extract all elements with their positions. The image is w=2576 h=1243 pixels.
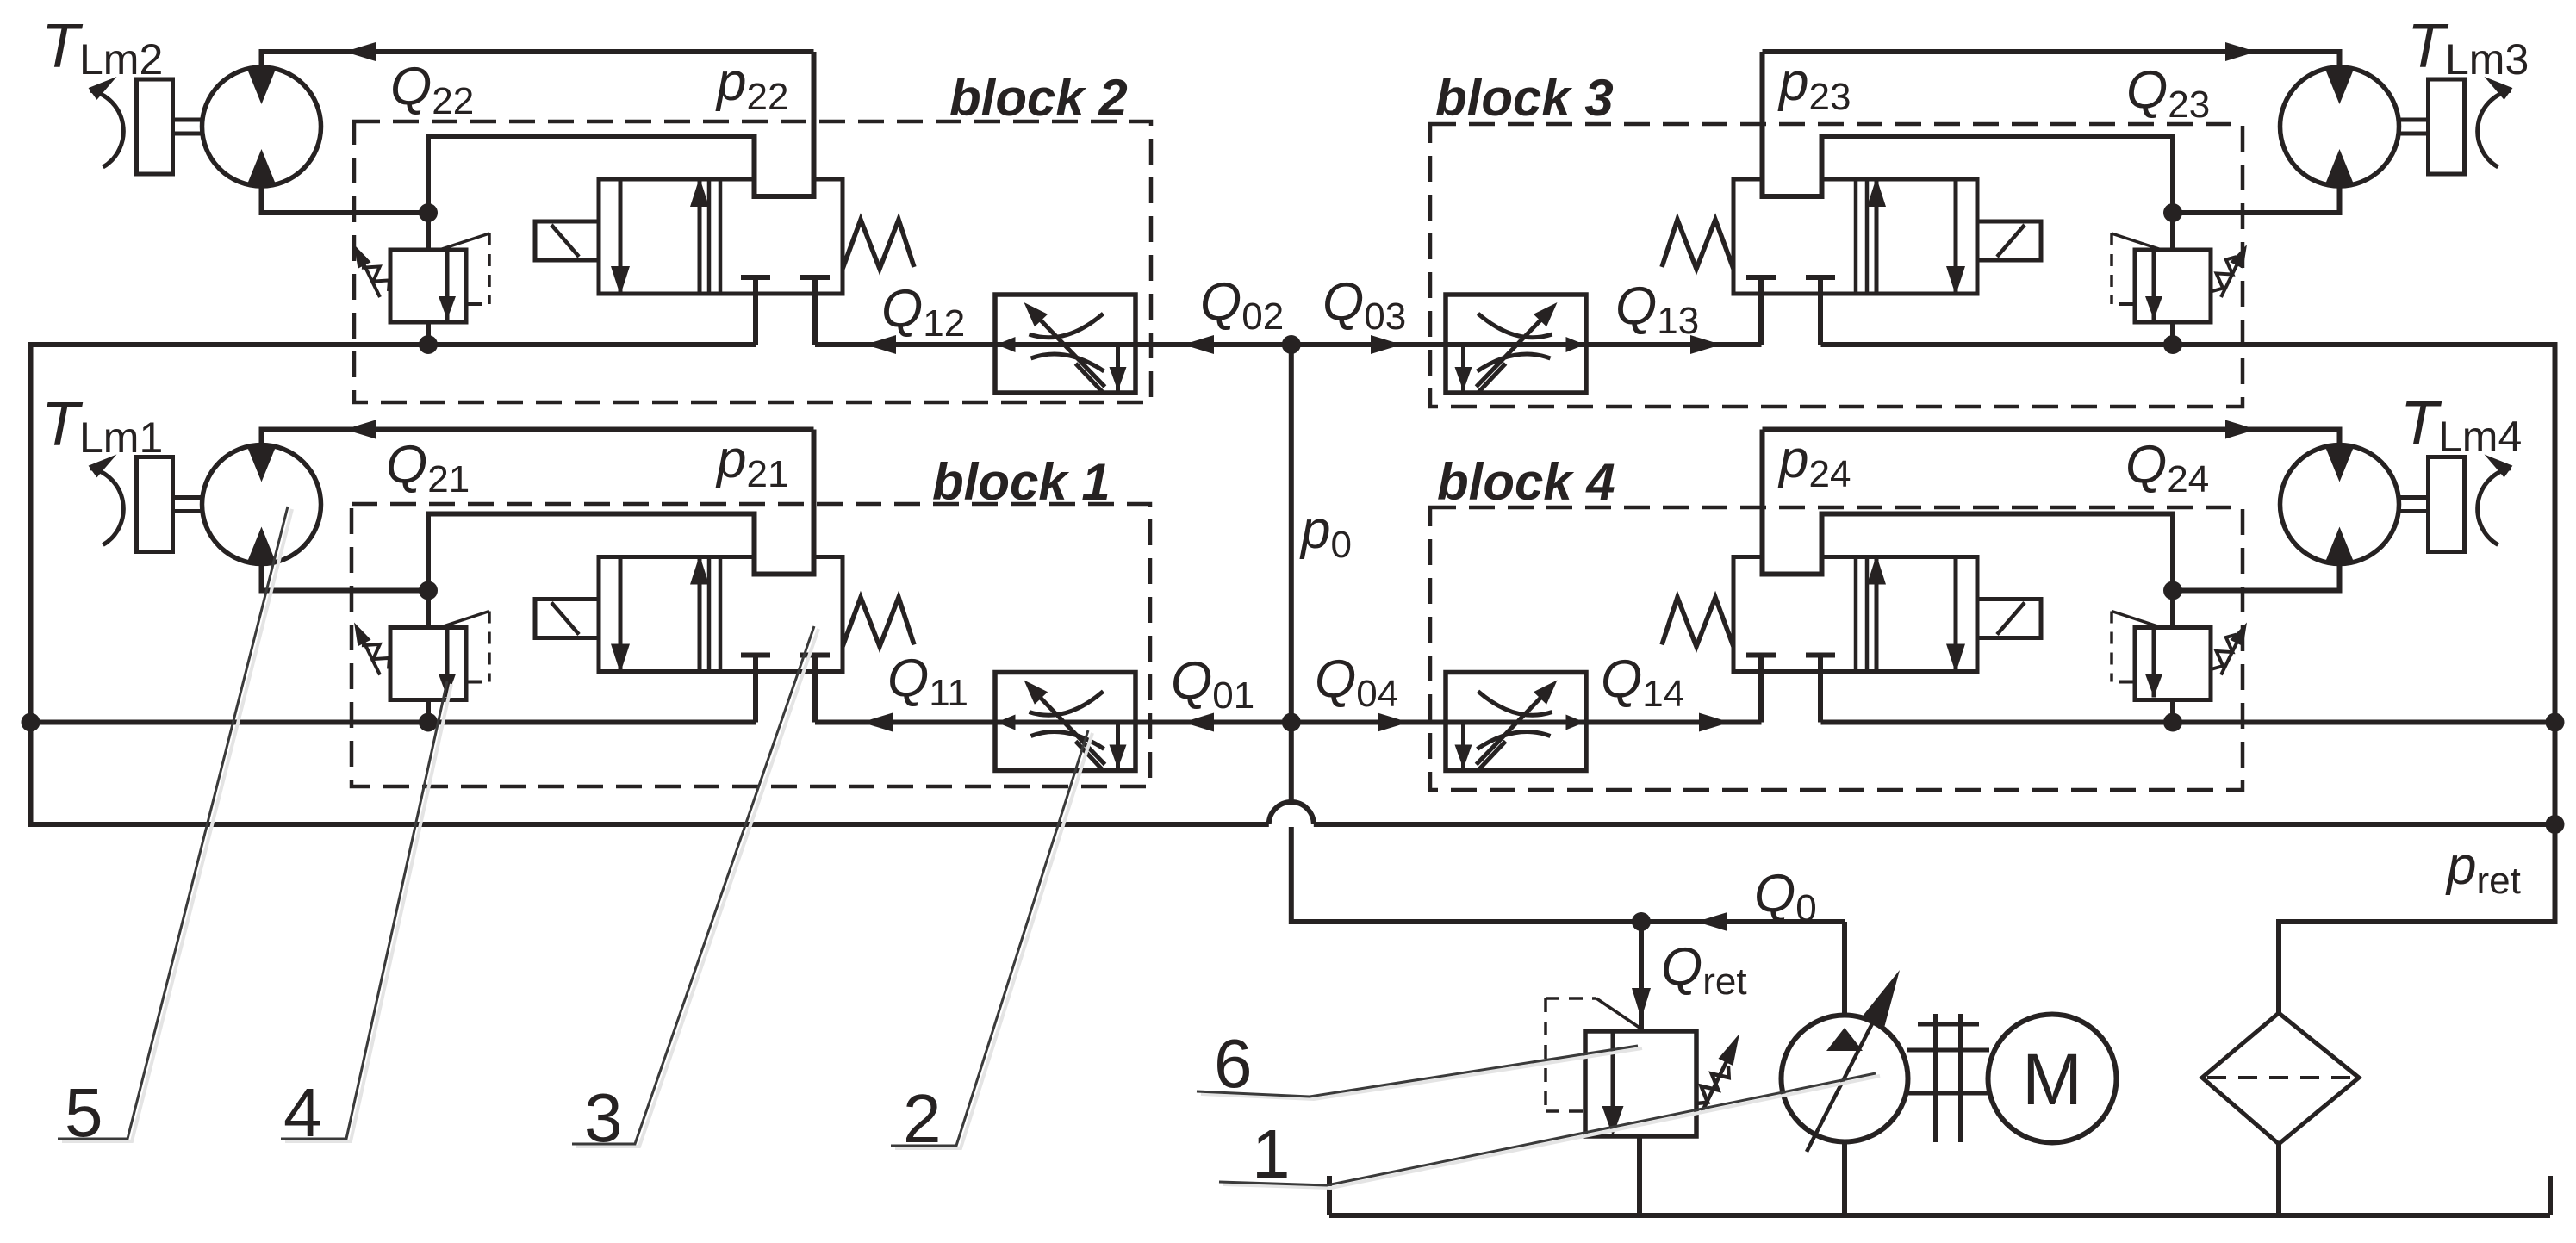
hydraulic motor Lm3 (2280, 67, 2399, 186)
arrow Q0 (1696, 912, 1727, 931)
valve top port pocket (1765, 554, 1820, 576)
wire: junction up and over to valve top notch (1763, 136, 2174, 213)
directional valve body (2/2 proportional) (599, 179, 843, 294)
arrow Q04 (1378, 713, 1409, 732)
valve flow path with up arrow (1875, 557, 1879, 672)
hydraulic motor Lm1 (202, 445, 321, 564)
valve bottom port T (to return) (741, 275, 770, 280)
relief valve flow line with down arrow (1611, 1031, 1615, 1130)
hydraulic motor Lm2 (202, 67, 321, 186)
wire: motor TLm3 top port to p-line (1763, 52, 2340, 70)
throttle arcs (1478, 692, 1552, 716)
dashed boundary of block 4 (1430, 507, 2243, 790)
arrow Q01 (1183, 713, 1214, 732)
node: right rail / pret rail (2546, 815, 2565, 834)
compensator flow line with down arrow (445, 250, 450, 320)
valve flow path with down arrow (619, 179, 623, 294)
compensator adjustable spring (364, 257, 389, 291)
svg-text:block 4: block 4 (1437, 453, 1615, 511)
arrowhead on motor top wire (345, 420, 376, 439)
arrow Q02 (1183, 335, 1214, 354)
wire: junction up and over to valve top notch (428, 514, 814, 591)
solenoid actuator (1977, 600, 2041, 638)
wire: motor TLm4 bottom port to junction (2173, 562, 2340, 591)
node: left rail / middle rail (22, 713, 40, 732)
relief valve tank line (1637, 1136, 1642, 1215)
flow control valve body (995, 673, 1136, 771)
valve flow path with down arrow (1954, 557, 1958, 672)
flow direction arrow (997, 337, 1016, 352)
solenoid actuator (535, 221, 599, 260)
junction node (419, 203, 438, 222)
dashed boundary of block 1 (352, 504, 1150, 786)
dashed boundary of block 3 (1430, 124, 2243, 407)
junction node on rail (419, 713, 438, 732)
motor shaft coupling lines (173, 495, 202, 500)
rotation arrow at Lm4 (2478, 469, 2511, 545)
compensator pilot line (dashed) (439, 233, 489, 250)
electric motor M (1988, 1015, 2117, 1143)
valve flow path with up arrow (698, 179, 702, 294)
wire: p-line down into valve top port (812, 52, 817, 196)
compensator adjustable spring (2212, 635, 2237, 669)
junction node (2163, 203, 2182, 222)
motor shaft block (137, 457, 173, 552)
throttle arcs (1030, 692, 1104, 716)
filter to p_ret rail wire (2279, 922, 2558, 1013)
valve return spring (1662, 220, 1733, 269)
directional valve position divider (719, 557, 723, 672)
relief valve pilot line (dashed) (1544, 998, 1547, 1111)
middle supply rail (Q11/Q01/Q04/Q14) (31, 720, 756, 725)
flow line through valve (1442, 720, 1590, 725)
arrow Q13 (1690, 335, 1721, 354)
compensator adjustable spring (2212, 257, 2237, 291)
directional valve position divider (1854, 557, 1858, 672)
compensator pilot line (dashed) (439, 612, 489, 628)
motor shaft coupling lines (2399, 118, 2429, 122)
top supply rail (Q12/Q02/Q03/Q13) (28, 342, 756, 347)
svg-text:block 1: block 1 (932, 453, 1111, 511)
svg-text:1: 1 (1252, 1116, 1291, 1192)
flow control valve body (1446, 295, 1586, 393)
flow control valve body (1446, 673, 1586, 771)
arrow Q14 (1699, 713, 1730, 732)
compensated branch with down arrow (1116, 345, 1120, 392)
compensator pilot line (dashed) (2112, 612, 2162, 628)
arrowhead on motor top wire (2225, 420, 2256, 439)
svg-text:6: 6 (1214, 1025, 1253, 1102)
return filter (2202, 1013, 2359, 1144)
valve flow path with up arrow (698, 557, 702, 672)
relief valve body (item 1/6) (1585, 1031, 1696, 1136)
p0 supply line (1289, 345, 1294, 802)
junction node (2163, 581, 2182, 600)
relief valve adjustment arrow (1702, 1054, 1730, 1111)
rotation arrow at Lm2 (90, 90, 124, 167)
valve return spring (843, 220, 914, 269)
directional valve body (2/2 proportional) (599, 557, 843, 672)
valve bottom port T (to flow control) (800, 275, 830, 280)
variable displacement pump (1782, 1016, 1908, 1142)
pressure compensator valve body (390, 628, 466, 700)
motor shaft coupling lines (2399, 495, 2429, 500)
compensator flow line with down arrow (2152, 250, 2156, 320)
rotation arrow at Lm1 (90, 469, 124, 545)
dashed boundary of block 2 (354, 121, 1151, 402)
arrow Q11 (862, 713, 893, 732)
arrow Q12 (865, 335, 896, 354)
throttle arcs (1478, 314, 1552, 338)
adjustment arrow (1477, 690, 1549, 765)
directional valve body (2/2 proportional) (1733, 557, 1977, 672)
wire: p-line down into valve top port (812, 430, 817, 575)
solenoid actuator (1977, 221, 2041, 260)
wire: motor TLm1 bottom port to junction (262, 562, 429, 591)
valve return spring (1662, 598, 1733, 647)
wire: junction down through compensator valve to rail (2170, 213, 2175, 345)
svg-text:block 3: block 3 (1435, 69, 1614, 127)
compensated branch with down arrow (1461, 345, 1465, 392)
arrow Q03 (1371, 335, 1402, 354)
adjustment arrow (1477, 312, 1549, 387)
valve top port pocket (757, 176, 812, 198)
valve flow path with down arrow (619, 557, 623, 672)
flow direction arrow (1566, 715, 1585, 730)
pressure compensator valve body (2135, 628, 2211, 700)
valve bottom port T (to flow control) (1746, 275, 1776, 280)
junction node (419, 581, 438, 600)
valve return spring (843, 598, 914, 647)
valve bottom port T (to return) (741, 653, 770, 658)
solenoid actuator (535, 600, 599, 638)
node: p0 / middle rail (1282, 713, 1301, 732)
compensated branch with down arrow (1116, 723, 1120, 770)
directional valve position divider (719, 179, 723, 294)
compensated branch with down arrow (1461, 723, 1465, 770)
wire: junction up and over to valve top notch (1763, 514, 2174, 591)
valve bottom port T (to return) (1806, 275, 1835, 280)
wire: p-line down into valve top port (1760, 430, 1765, 575)
valve bottom port T (to return) (1806, 653, 1835, 658)
pump suction/pressure line (1842, 922, 1847, 1016)
arrowhead on motor top wire (345, 42, 376, 61)
motor shaft block (2429, 457, 2465, 552)
flow line through valve (1442, 342, 1590, 347)
Qret wire down to relief valve (1639, 922, 1644, 1031)
junction node on rail (2163, 335, 2182, 354)
p_ret return rail with bridge over p0 (28, 822, 1269, 827)
node: right rail / middle rail (2546, 713, 2565, 732)
valve top port pocket (1765, 176, 1820, 198)
wire: motor TLm2 bottom port to junction (262, 183, 429, 213)
arrow Qret (down) (1632, 988, 1651, 1019)
flow line through valve (992, 720, 1139, 725)
motor shaft block (2429, 79, 2465, 174)
valve flow path with up arrow (1875, 179, 1879, 294)
flow direction arrow (1566, 337, 1585, 352)
wire: p-line down into valve top port (1760, 52, 1765, 196)
compensator flow line with down arrow (2152, 628, 2156, 698)
filter to tank wire (2276, 1144, 2281, 1215)
directional valve position divider (1854, 179, 1858, 294)
valve bottom port T (to flow control) (800, 653, 830, 658)
compensator pilot line (dashed) (2112, 233, 2162, 250)
junction node on rail (2163, 713, 2182, 732)
wire: junction down through compensator valve to rail (2170, 591, 2175, 723)
rotation arrow at Lm3 (2478, 90, 2511, 167)
left return rail (28, 345, 34, 824)
valve bottom port T (to flow control) (1746, 653, 1776, 658)
wire: motor TLm4 top port to p-line (1763, 430, 2340, 448)
compensator flow line with down arrow (445, 628, 450, 698)
throttle arcs (1030, 314, 1104, 338)
compensator adjustable spring (364, 635, 389, 669)
hydraulic motor Lm4 (2280, 445, 2399, 564)
flow line through valve (992, 342, 1139, 347)
node: Qret branch (1632, 912, 1651, 931)
pump variable-displacement arrow (1807, 1004, 1882, 1152)
junction node on rail (419, 335, 438, 354)
motor shaft block (137, 79, 173, 174)
right return rail (2553, 345, 2558, 922)
node: p0 / top rail (1282, 335, 1301, 354)
flow direction arrow (997, 715, 1016, 730)
svg-text:M: M (2022, 1039, 2082, 1120)
adjustment arrow (1033, 312, 1105, 387)
pressure compensator valve body (390, 250, 466, 322)
valve flow path with down arrow (1954, 179, 1958, 294)
valve top port pocket (757, 554, 812, 576)
coupling between pump and electric motor (1907, 1048, 1989, 1053)
Q0 supply wire from pump (1641, 919, 1845, 924)
wire: junction up and over to valve top notch (428, 136, 814, 213)
directional valve body (2/2 proportional) (1733, 179, 1977, 294)
flow control valve body (995, 295, 1136, 393)
relief valve spring (adjustable) (1696, 1066, 1729, 1103)
svg-text:block 2: block 2 (949, 69, 1128, 127)
wire: motor TLm3 bottom port to junction (2173, 183, 2340, 213)
motor shaft coupling lines (173, 118, 202, 122)
wire: motor TLm1 top port to p-line (262, 430, 814, 448)
pressure compensator valve body (2135, 250, 2211, 322)
wire: junction down through compensator valve to rail (426, 213, 431, 345)
wire: motor TLm2 top port to p-line (262, 52, 814, 70)
adjustment arrow (1033, 690, 1105, 765)
tank line (1329, 1213, 2550, 1218)
wire: junction down through compensator valve to rail (426, 591, 431, 723)
arrowhead on motor top wire (2225, 42, 2256, 61)
